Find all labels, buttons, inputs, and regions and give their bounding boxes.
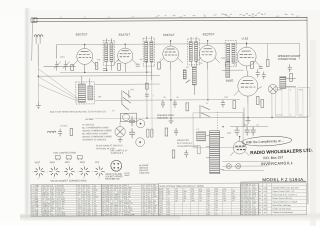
svg-text:Power Trans 230V 50~: Power Trans 230V 50~	[272, 198, 293, 200]
socket diagram V3 base	[64, 167, 74, 177]
coil terminal diagram 1	[55, 156, 60, 161]
coil terminal diagram 3	[77, 155, 82, 160]
socket pin numbers	[32, 164, 105, 179]
resistor R17	[256, 97, 259, 105]
capacitor C13	[259, 67, 263, 69]
resistor R11	[172, 150, 175, 158]
svg-text:45: 45	[259, 195, 261, 197]
capacitor C15	[145, 94, 149, 96]
svg-text:500: 500	[249, 214, 252, 216]
IF transformer T2	[143, 38, 155, 66]
svg-text:Chassis and Hardware: Chassis and Hardware	[273, 212, 294, 214]
ruler tick numbers	[59, 16, 299, 19]
svg-text:VOLTAGES TO CHASSIS: VOLTAGES TO CHASSIS	[82, 138, 107, 141]
coil terminal diagram 2	[66, 156, 71, 161]
svg-text:16M: 16M	[263, 188, 267, 190]
filter capacitor can C22	[136, 119, 144, 127]
svg-text:7: 7	[32, 172, 33, 174]
svg-text:3: 3	[74, 171, 75, 173]
svg-text:Gang Condenser 2 x 420pF: Gang Condenser 2 x 420pF	[272, 201, 297, 203]
svg-text:46: 46	[259, 198, 261, 200]
resistor R6	[186, 103, 189, 111]
filter choke L4	[47, 131, 56, 133]
page bottom torn edge	[20, 213, 180, 222]
svg-text:COIL CONNECTIONS: COIL CONNECTIONS	[53, 152, 76, 154]
svg-text:28: 28	[102, 214, 104, 216]
COMPLIMENTS STAMP	[242, 135, 314, 167]
svg-text:L.S.: L.S.	[196, 129, 200, 131]
svg-text:250K: 250K	[221, 58, 226, 60]
svg-text:6SK7GT: 6SK7GT	[163, 33, 175, 37]
svg-text:.1: .1	[119, 214, 121, 216]
svg-text:1: 1	[68, 165, 69, 167]
capacitor C12	[58, 129, 62, 137]
svg-text:U-52: U-52	[242, 37, 249, 41]
MAIN SCHEMATIC	[34, 33, 310, 174]
svg-text:Speaker Field Coil 1,000 o: Speaker Field Coil 1,000 ohm	[272, 187, 299, 189]
svg-text:3: 3	[89, 171, 90, 173]
resistor R15	[197, 146, 200, 154]
resistor R9	[290, 73, 293, 81]
svg-text:6V6G: 6V6G	[226, 79, 234, 83]
notes text blocks	[50, 110, 198, 160]
capacitor C14	[262, 71, 266, 79]
svg-text:16M: 16M	[191, 200, 195, 202]
wire lamp lead 2	[222, 165, 268, 167]
wire lamp lead 3	[222, 170, 264, 172]
svg-text:6SA7GT: 6SA7GT	[119, 33, 131, 37]
voltage table C rows	[158, 188, 240, 216]
parts table E frame	[258, 183, 306, 215]
resistor R1	[71, 65, 74, 71]
right side connection text block	[278, 55, 301, 61]
parts table D rows	[240, 184, 258, 216]
svg-text:1M: 1M	[264, 212, 267, 214]
svg-text:.00: .00	[114, 214, 117, 216]
svg-text:OSC: OSC	[130, 89, 135, 91]
IF transformer T1	[103, 40, 115, 65]
ground GND4	[118, 137, 123, 142]
wire heater bus	[60, 71, 152, 73]
svg-text:7: 7	[92, 171, 93, 173]
pencil handwriting above ruler	[239, 13, 265, 16]
border ruler top line	[32, 17, 307, 18]
capacitor C8	[256, 70, 260, 78]
resistor R4	[158, 62, 161, 69]
parts table D frame	[240, 184, 258, 216]
svg-text:YEL: YEL	[299, 114, 302, 116]
IF transformer T4	[225, 41, 237, 67]
svg-text:7: 7	[77, 171, 78, 173]
wire chassis bus left	[95, 117, 160, 119]
svg-text:.5M: .5M	[223, 200, 227, 202]
svg-text:FROM BELOW: FROM BELOW	[105, 179, 119, 181]
svg-text:6SQ7GT: 6SQ7GT	[203, 32, 215, 36]
svg-text:ALL RESISTORS 1/2 WATT: ALL RESISTORS 1/2 WATT	[82, 132, 109, 135]
ground GND2	[169, 118, 174, 124]
power transformer T6	[210, 131, 220, 174]
voltage table C frame	[158, 183, 240, 215]
socket diagram V4 base	[79, 166, 89, 176]
capacitor C4	[136, 64, 140, 66]
output transformer T5	[280, 76, 286, 88]
speaker plug J1	[115, 127, 125, 137]
svg-text:.00: .00	[51, 215, 54, 217]
svg-text:6SA7: 6SA7	[50, 161, 56, 164]
svg-text:N.Z.: N.Z.	[302, 180, 306, 182]
page fold right shadow	[310, 40, 316, 226]
ground GND1	[36, 102, 41, 109]
volume potentiometer VR1	[192, 67, 196, 85]
trimmer capacitor C2	[63, 61, 70, 71]
parts table B frame	[101, 184, 158, 216]
terminal board text rows	[276, 89, 303, 116]
svg-text:14: 14	[32, 215, 34, 217]
oscillator coil box L2	[76, 82, 95, 104]
svg-text:P.O. Box 157: P.O. Box 157	[263, 155, 283, 160]
svg-text:1: 1	[53, 165, 54, 167]
svg-text:.01: .01	[215, 214, 218, 216]
parts table A rows	[31, 184, 102, 216]
svg-text:6SQ7: 6SQ7	[80, 162, 86, 164]
wire rectifier feed	[243, 108, 245, 127]
ground GND3	[246, 118, 251, 124]
dial drive pulley P1	[120, 113, 136, 122]
filter capacitor can C22a	[136, 138, 145, 147]
svg-text:MODEL F.Z 5164A: MODEL F.Z 5164A	[262, 177, 303, 182]
svg-text:Knobs (3) Dial Glass: Knobs (3) Dial Glass	[272, 208, 290, 210]
scattered small resistors and capacitors	[47, 43, 293, 158]
parts table B rows	[101, 184, 158, 216]
svg-text:5: 5	[98, 177, 99, 179]
resistor R21	[151, 129, 153, 137]
wire B+ right drop	[299, 43, 301, 59]
tube labels	[76, 32, 249, 84]
svg-text:+B 185V: +B 185V	[85, 119, 94, 121]
PARTS TABLES	[31, 183, 307, 216]
svg-text:3: 3	[44, 172, 45, 174]
resistor R5	[183, 70, 186, 79]
svg-text:.1: .1	[148, 214, 150, 216]
capacitor C5	[161, 100, 165, 108]
svg-text:TRANS 16MF: TRANS 16MF	[124, 213, 136, 216]
capacitor C7	[221, 100, 225, 108]
svg-text:1: 1	[98, 164, 99, 166]
tube V4 6SQ7GT	[199, 45, 216, 62]
capacitor C10	[174, 128, 178, 136]
svg-text:47: 47	[259, 202, 261, 204]
svg-text:I.F. 465 KC/S: I.F. 465 KC/S	[82, 124, 95, 126]
tube V2 6SA7GT	[118, 48, 133, 63]
svg-text:GREEN: GREEN	[276, 89, 283, 91]
svg-text:CHOKE: CHOKE	[60, 126, 68, 128]
capacitor C6	[173, 100, 177, 108]
trimmer capacitor C1	[54, 61, 61, 71]
socket diagram V1 base	[34, 167, 44, 177]
resistor R8	[261, 100, 264, 108]
resistor R20	[147, 129, 149, 137]
svg-text:50: 50	[259, 212, 261, 214]
wire V6 cathode drop	[247, 104, 249, 118]
svg-text:BLACK: BLACK	[276, 113, 282, 116]
wire	[222, 69, 244, 71]
dial lamp LP1	[226, 164, 231, 169]
terminal board TB1	[275, 87, 296, 116]
svg-text:.01: .01	[232, 200, 235, 202]
border ruler corner box	[31, 18, 37, 23]
antenna A1 loops	[34, 35, 43, 37]
svg-text:44: 44	[259, 191, 261, 193]
wave change switch S1	[122, 90, 131, 110]
svg-text:ALL CONDENSERS IN MFD: ALL CONDENSERS IN MFD	[82, 126, 109, 129]
socket diagram V5 base	[94, 166, 104, 176]
svg-text:1000 OHM: 1000 OHM	[157, 118, 168, 120]
resistor R12	[226, 62, 230, 78]
wire	[56, 45, 58, 59]
svg-text:42: 42	[241, 214, 243, 216]
small value labels scattered	[60, 55, 288, 135]
capacitor C11	[184, 150, 188, 158]
socket diagram V2 base	[49, 167, 59, 177]
tone switch S2	[200, 105, 210, 118]
wire chassis bus right	[160, 116, 307, 119]
svg-text:465KC: 465KC	[124, 175, 130, 177]
wire V4 cathode drop	[207, 70, 209, 100]
smoothing capacitor C24	[245, 127, 250, 136]
svg-text:3: 3	[59, 172, 60, 174]
VALVE SOCKETS ROW	[34, 160, 121, 176]
stamp oval	[242, 136, 292, 147]
wire speaker return	[271, 92, 273, 117]
svg-text:1: 1	[83, 164, 84, 166]
svg-text:BUILT FOR RADIO WHOLESALERS LT: BUILT FOR RADIO WHOLESALERS LTD BY RADIO…	[50, 110, 107, 113]
svg-text:.00: .00	[83, 215, 86, 217]
resistor R19	[266, 59, 269, 66]
svg-text:1M: 1M	[186, 67, 189, 69]
electrolytic capacitor C20	[129, 116, 135, 126]
svg-text:VALVE VOLTAGE TABLE (200-: VALVE VOLTAGE TABLE (200-250V A.C. MAINS…	[159, 185, 204, 188]
svg-text:.00: .00	[263, 195, 266, 197]
field coil L3	[197, 132, 206, 141]
dial lamp LP2	[236, 164, 241, 169]
tube V5 U-52	[237, 47, 256, 66]
svg-text:.5M: .5M	[35, 215, 39, 217]
socket labels	[32, 161, 150, 183]
terminal board TB2	[298, 87, 310, 116]
svg-text:1400 KC/S: 1400 KC/S	[139, 173, 150, 175]
capacitor C9	[288, 64, 292, 72]
svg-text:.00: .00	[199, 200, 202, 202]
svg-text:500: 500	[78, 215, 81, 217]
svg-text:MAINS 230V: MAINS 230V	[177, 139, 190, 142]
wire junction dots	[37, 40, 272, 139]
shield dashed line	[216, 112, 218, 133]
svg-text:VALVE SOCKET CONNECTIONS: VALVE SOCKET CONNECTIONS	[50, 179, 87, 182]
svg-text:SPEAKER FIELD: SPEAKER FIELD	[157, 114, 175, 117]
frame aerial L1	[37, 67, 39, 102]
svg-text:UNLESS OTHERWISE STATED: UNLESS OTHERWISE STATED	[82, 135, 112, 138]
capacitor C25	[251, 127, 256, 136]
svg-text:CONNECTIONS: CONNECTIONS	[278, 58, 297, 61]
IF transformer T3	[188, 39, 200, 65]
svg-text:50 CYCLES A.C.: 50 CYCLES A.C.	[177, 142, 193, 145]
svg-text:FIELD: FIELD	[281, 77, 287, 79]
smoothing capacitor C23	[235, 127, 240, 136]
socket diagram speaker plug	[111, 160, 122, 171]
wire AVC bus	[38, 75, 159, 78]
tube V6 6V6GT	[238, 76, 258, 96]
svg-text:Dial Lamps 6.3V .3A M.E.S.: Dial Lamps 6.3V .3A M.E.S.	[272, 193, 297, 196]
svg-text:.00: .00	[175, 200, 178, 202]
resistor R13	[70, 129, 73, 136]
loudspeaker LS1	[268, 84, 277, 93]
svg-text:48: 48	[259, 205, 261, 207]
parts table A frame	[31, 184, 102, 216]
resistor R18	[146, 83, 149, 89]
wire	[146, 60, 148, 118]
svg-text:Mains Flex and Plug: Mains Flex and Plug	[272, 205, 290, 207]
svg-text:CONSUMPTION 45W: CONSUMPTION 45W	[177, 146, 197, 148]
svg-text:UNLESS OTHERWISE STATED: UNLESS OTHERWISE STATED	[82, 129, 112, 132]
svg-text:MICA 250K: MICA 250K	[57, 214, 67, 217]
electrolytic capacitor C21	[129, 128, 135, 138]
svg-text:5: 5	[38, 178, 39, 180]
resistor R2	[95, 62, 98, 69]
svg-text:6SK7: 6SK7	[65, 162, 71, 164]
wire IF2 secondary drop	[151, 80, 153, 135]
border left edge line	[31, 19, 32, 61]
svg-text:.5M: .5M	[88, 215, 92, 217]
wire AVC return bus	[95, 99, 240, 102]
page left edge shadow	[24, 8, 30, 216]
svg-text:.00: .00	[106, 214, 109, 216]
rectifier tube V7	[233, 141, 246, 154]
tube V1 6SG7GT	[77, 48, 93, 64]
svg-text:49: 49	[259, 209, 261, 211]
border right edge line	[306, 17, 309, 204]
svg-text:ALIGN GANG AT 1400 KC/S: ALIGN GANG AT 1400 KC/S	[96, 144, 123, 147]
capacitor C3	[103, 68, 107, 70]
power pack enclosure box	[193, 113, 243, 148]
tube V3 6SK7GT	[163, 46, 179, 62]
svg-text:6SG7GT: 6SG7GT	[76, 32, 88, 36]
wire B+ feed	[230, 125, 268, 127]
wire	[95, 83, 160, 85]
svg-text:Output Trans 5,000 : V.C.: Output Trans 5,000 : V.C.	[272, 190, 295, 193]
svg-text:7: 7	[47, 172, 48, 174]
svg-text:43: 43	[259, 188, 261, 190]
resistor R7	[233, 101, 236, 109]
parts table E rows	[258, 183, 306, 215]
svg-text:.3 AMP M.E.S.: .3 AMP M.E.S.	[110, 152, 124, 155]
wire	[267, 43, 269, 59]
resistor R3	[118, 63, 121, 70]
svg-text:1: 1	[38, 165, 39, 167]
wire lamp lead 1	[222, 160, 270, 162]
svg-text:6SG7: 6SG7	[35, 162, 41, 164]
resistor R10	[165, 128, 168, 136]
wire V3 cathode drop	[170, 70, 172, 118]
resistor R16	[251, 62, 254, 69]
svg-text:7: 7	[62, 172, 63, 174]
